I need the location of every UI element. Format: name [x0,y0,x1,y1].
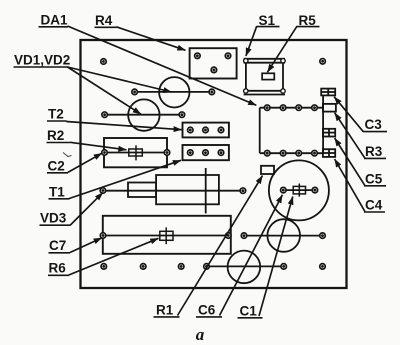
node C7 wire left pad [100,233,106,239]
node C1 wire right pad [312,187,318,193]
node isolated pad bottom right [320,264,326,270]
wire through C7 [103,235,228,237]
resistor R5 outline [262,73,274,79]
transformer T1 big rect [156,175,219,204]
board outline [81,40,347,288]
node wire VD2 right pad [179,112,185,118]
wire leader VD3 [70,193,102,225]
label C1 [238,303,263,318]
node T1 wire left pad [100,188,106,194]
node wire VD1 left pad [132,89,138,95]
svg-text:R3: R3 [365,144,383,159]
op-amp DA1 footprint: top wire [260,107,323,109]
wire through T1 [102,190,243,192]
capacitor C6 circle [267,219,300,252]
capacitor C7 outline box [103,216,231,254]
wire DA1 left vertical [259,108,261,154]
node R4 pad 2 [225,53,231,59]
label C6 [196,303,222,318]
node bottom row pad 1 [101,264,107,270]
svg-text:R6: R6 [49,261,67,276]
node bottom wire left pad [204,264,210,270]
wire leader C7 [70,238,102,253]
node DA1 pin pads top row [264,105,317,111]
wire leader C3 [334,97,363,132]
resistor R4 outline [190,48,237,78]
capacitor bottom-left circle [228,251,261,284]
wire through C2 box [105,152,168,154]
resistor R2 symbol [129,145,143,160]
node C6 wire left pad [241,233,247,239]
svg-text:VD1,VD2: VD1,VD2 [14,53,70,68]
label VD3 [40,211,71,226]
wire leader S1 [246,26,257,56]
svg-text:C5: C5 [365,171,383,186]
node R4 pad 1 [195,53,201,59]
svg-text:T1: T1 [49,185,65,200]
diode VD2 circle [128,99,159,130]
wire leader C6 [220,195,283,316]
node bottom row pad 2 [140,264,146,270]
label R1 [154,303,180,318]
wire through VD2 [105,114,182,116]
wire leader R2 [70,142,127,150]
artifact mark [63,153,72,157]
label DA1 [39,13,69,28]
svg-text:C7: C7 [49,238,66,253]
node wire VD1 right pad [209,89,215,95]
node DA1 pin pads bottom row [264,150,317,156]
node T1 wire right pad [240,188,246,194]
wire leader C5 [335,138,365,186]
svg-text:C6: C6 [198,303,216,318]
capacitor C4 symbol [323,149,335,157]
diode VD1 circle [159,77,189,107]
node R4 pad 3 [211,67,217,73]
node C6 wire right pad [320,233,326,239]
node bottom wire right pad [281,264,287,270]
svg-text:R1: R1 [156,303,174,318]
capacitor C1 big circle [269,160,329,220]
transistor T2 outline [183,123,229,138]
svg-text:DA1: DA1 [41,13,68,28]
wire leader VD1 [68,67,172,92]
wire leader DA1 [68,26,257,105]
wire leader T1 [69,160,181,198]
node C1 wire left pad [281,187,287,193]
label C4 [364,198,385,213]
label T2 [47,107,67,122]
wire through C6 [244,235,323,237]
wire leader T2 [66,122,181,130]
node T1 pads [188,150,224,156]
label C5 [364,171,386,186]
transistor T1 outline (second 3-pad) [183,145,229,160]
wire leader R1 [178,176,263,316]
node C2 wire right pad [164,150,170,156]
label R4 [95,13,117,28]
wire leader C4 [335,159,365,212]
wire leader R5 [267,26,297,72]
label R3 [364,144,386,159]
wire leader C1 [259,197,293,317]
svg-text:R2: R2 [47,128,64,143]
svg-text:C1: C1 [240,303,258,318]
label R2 [47,128,71,143]
capacitor C1 symbol [293,184,305,197]
wire inside C1 [283,189,315,191]
resistor R3 outline [323,104,336,112]
svg-text:R5: R5 [299,13,317,28]
switch S1 outline [244,59,286,95]
wire leader C2 [68,153,102,172]
svg-text:VD3: VD3 [40,211,67,226]
wire through VD1 [135,91,212,93]
resistor R6 symbol [160,227,173,244]
label C7 [49,238,71,253]
wire leader R3 [335,113,365,159]
label R5 [297,13,320,28]
transformer divider vertical line [205,168,207,213]
wire DA1 bottom [260,152,323,154]
wire right column vertical [322,95,324,153]
wire leader R6 [69,238,159,275]
wire leader R4 [116,27,185,51]
svg-text:a: a [196,325,205,344]
label C2 [47,159,68,174]
node free pad top-right [320,59,326,65]
capacitor C3 symbol [321,89,335,96]
node C2 wire left pad [102,150,108,156]
svg-text:C4: C4 [365,198,383,213]
label C3 [363,117,387,132]
label T1 [49,185,70,200]
label VD1,VD2 [14,53,71,68]
svg-text:C3: C3 [365,117,383,132]
node C7 wire right pad [226,233,232,239]
transformer T1 small rect [128,183,156,198]
svg-text:S1: S1 [259,13,276,28]
capacitor C5 symbol [323,129,335,137]
svg-text:R4: R4 [95,13,113,28]
wire leader VD2 [68,67,142,114]
label R6 [48,261,69,276]
resistor R1 small rect [261,166,274,174]
capacitor C2 outline box [104,138,167,167]
svg-text:C2: C2 [48,159,65,174]
wire through bottom-left circle [207,265,284,267]
node wire VD2 left pad [102,112,108,118]
node bottom row pad 3 [178,264,184,270]
label S1 [257,13,280,28]
svg-text:T2: T2 [48,107,64,122]
node free pad top-left [101,59,107,65]
node T2 pads [188,127,224,133]
leader lines [66,26,365,316]
